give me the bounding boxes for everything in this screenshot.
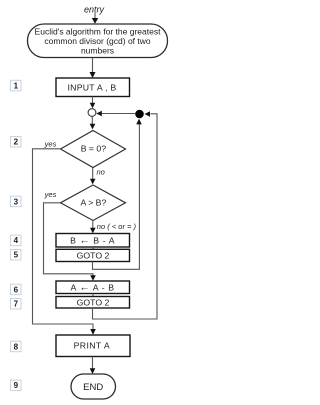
svg-text:9: 9: [14, 381, 19, 390]
wire box6 to box7: [92, 294, 94, 297]
svg-text:no: no: [97, 168, 105, 177]
node label 1: [11, 80, 22, 91]
svg-text:END: END: [83, 382, 103, 393]
svg-text:8: 8: [14, 342, 19, 351]
terminator END: [71, 374, 116, 399]
wire entry arrow: [92, 13, 98, 24]
process GOTO 2 (box7): [56, 297, 130, 309]
process INPUT A , B: [56, 78, 130, 97]
svg-text:6: 6: [14, 285, 19, 294]
node label 7: [11, 299, 22, 310]
svg-text:A ← A - B: A ← A - B: [71, 282, 115, 293]
svg-text:PRINT A: PRINT A: [74, 340, 110, 350]
terminator START: [28, 24, 168, 58]
wire yes branch B=0 to PRINT A: [33, 149, 96, 335]
wire dot to circle: [96, 111, 135, 117]
wire INPUT to node 2 circle: [90, 97, 96, 109]
node label 2: [11, 137, 22, 148]
node 2 circle: [88, 109, 96, 117]
node label 8: [11, 341, 22, 352]
svg-text:2: 2: [14, 138, 19, 147]
wire box7 loop back to junction dot: [93, 111, 158, 319]
svg-text:entry: entry: [84, 4, 105, 14]
svg-text:GOTO 2: GOTO 2: [77, 297, 110, 307]
svg-text:3: 3: [14, 197, 19, 206]
wire box5 loop back to junction dot: [93, 119, 142, 269]
svg-text:yes: yes: [44, 139, 57, 148]
svg-text:numbers: numbers: [81, 46, 114, 56]
svg-text:GOTO 2: GOTO 2: [77, 251, 110, 261]
svg-text:7: 7: [14, 300, 19, 309]
node label 4: [11, 235, 22, 246]
node label 9: [11, 380, 22, 391]
wire circle to decision B=0: [90, 117, 96, 130]
decision A > B?: [61, 185, 126, 221]
process A &#8592; A - B: [56, 281, 130, 294]
svg-text:common divisor (gcd) of two: common divisor (gcd) of two: [44, 36, 151, 46]
terminator START text: [35, 27, 162, 56]
wire B=0 to decision A>B: [90, 168, 96, 185]
wire PRINT A to END: [90, 357, 96, 375]
svg-text:5: 5: [14, 251, 19, 260]
svg-text:4: 4: [14, 236, 19, 245]
svg-text:no ( < or = ): no ( < or = ): [97, 222, 137, 231]
wire A>B to box 4: [90, 221, 96, 234]
node label 3: [11, 196, 22, 207]
svg-text:B ← B - A: B ← B - A: [70, 236, 115, 247]
svg-text:INPUT A , B: INPUT A , B: [68, 82, 117, 92]
node label 6: [11, 284, 22, 295]
svg-text:A > B?: A > B?: [80, 198, 106, 208]
junction dot: [135, 110, 144, 119]
svg-text:yes: yes: [44, 190, 57, 199]
process GOTO 2 (box5): [56, 249, 130, 261]
wire terminator to INPUT: [90, 58, 96, 78]
svg-text:1: 1: [14, 81, 19, 90]
process PRINT A: [56, 335, 130, 357]
svg-text:Euclid's algorithm for the gre: Euclid's algorithm for the greatest: [35, 27, 162, 37]
decision B = 0?: [61, 131, 126, 168]
node label 5: [11, 250, 22, 261]
svg-text:B = 0?: B = 0?: [81, 144, 107, 154]
process B &#8592; B - A: [56, 234, 130, 248]
wire yes branch A>B to box 6: [44, 203, 96, 281]
wire box4 to box5: [92, 247, 94, 249]
